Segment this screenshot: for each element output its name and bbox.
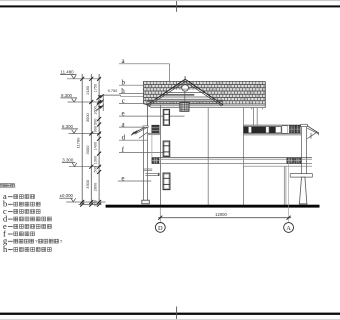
dim line 12000 [158,217,291,219]
svg-text:±0.000: ±0.000 [60,193,74,198]
svg-text:A: A [286,225,291,232]
svg-text:12000: 12000 [215,212,227,217]
svg-text:9.750: 9.750 [108,88,119,93]
gable vent circle [182,85,189,91]
axis bubble A [284,223,294,233]
leader a drop line [169,64,171,82]
left porch tile box [148,125,161,135]
right porch eave and post [301,124,319,173]
left porch roof and post [131,126,152,204]
pergola post x253 [252,108,254,126]
balcony louver band [244,125,308,135]
elevation marker 6.300 [62,124,102,134]
elevation marker 9.300 [61,93,102,102]
axis D extension [159,208,161,223]
wall edge left upper [147,105,149,126]
svg-text:900: 900 [94,126,98,132]
wall edge x208 [207,108,209,205]
material leader h2 [119,87,159,95]
axis bubble D [155,223,165,233]
svg-text:1600: 1600 [94,106,98,114]
legend item g [3,237,63,246]
svg-text:3300: 3300 [85,179,90,189]
sheet border top tick [176,1,178,12]
material leader f7 [119,146,163,154]
gable roof slopes [147,79,223,106]
sheet border top gray edge [0,0,340,1]
svg-text:1750: 1750 [94,84,98,92]
svg-text:2180: 2180 [85,85,90,95]
wall edge x160 [159,105,161,205]
roof eave fascia [148,105,266,107]
wall edge x243 [243,108,245,205]
dim line v1 (overall) [81,74,83,204]
material leader a5 [119,121,143,129]
svg-text:D: D [158,225,163,232]
svg-text:3.300: 3.300 [62,157,74,162]
material leader e8 [118,174,152,182]
dim ticks 12000 [158,216,162,220]
legend item f [3,229,35,238]
elevation marker 11.480 [60,70,101,79]
gable eave fascia lines [147,99,223,101]
window upper [163,109,169,125]
legend item c [3,207,40,216]
floor slab band [152,158,312,167]
svg-text:?: ? [60,239,63,244]
svg-text:9.300: 9.300 [61,93,73,98]
material leader c3 [119,97,151,105]
dim chain texts [76,84,98,207]
ground line [106,205,320,208]
legend item a [3,192,35,201]
chimney section box [180,103,189,112]
gable finial [184,76,186,79]
right column capital [290,174,312,178]
legend item b [3,200,40,209]
gable center post line [184,79,186,111]
main roof tile hatch band [144,81,266,104]
sheet border top thick line [0,5,340,7]
material leader e4 [119,110,185,118]
legend item e [3,222,51,231]
svg-text:11.480: 11.480 [61,70,75,75]
elevation marker ±0.000 [59,193,105,202]
pergola post top ticks [251,108,253,110]
roof band right edge [264,81,266,107]
gable louver face [152,90,218,102]
svg-text:500: 500 [94,119,98,125]
material leader b1 [119,79,144,87]
legend item d [3,214,51,223]
svg-text:11780: 11780 [76,137,81,149]
sheet border bottom tick [176,307,178,320]
left rail [145,172,159,174]
dim line v2 (floors) [90,74,92,204]
level 9.750 eave line [103,88,143,111]
svg-text::: : [15,184,16,189]
axis A extension [288,158,290,223]
dim ticks [79,77,102,207]
svg-text:3000: 3000 [85,112,90,122]
pergola post x257 [256,108,258,126]
svg-text:300: 300 [94,200,98,206]
svg-text:500: 500 [94,166,98,172]
wall edge right double [283,166,285,205]
gable louver slats [152,93,218,102]
legend header [0,184,3,188]
legend item h [3,245,51,254]
svg-text:6.300: 6.300 [62,124,74,129]
sheet border bottom gray edge [0,319,340,320]
svg-text:1400: 1400 [94,142,98,150]
svg-text:1300: 1300 [94,156,98,164]
eave level flags [96,94,103,110]
window middle [163,141,170,156]
svg-text:2800: 2800 [94,183,98,191]
dim line v3 (subdims) [98,74,100,204]
right tapered column [299,177,307,204]
svg-text:?: ? [35,239,38,244]
material leader d6 [119,134,147,142]
material leader a0 [119,57,170,65]
roof band left edge [143,81,145,103]
elevation marker 3.300 [62,157,101,166]
window lower [163,173,170,190]
svg-text:3000: 3000 [85,145,90,155]
roof band left eave cut [144,103,151,107]
sheet border bottom thick line [0,313,340,315]
